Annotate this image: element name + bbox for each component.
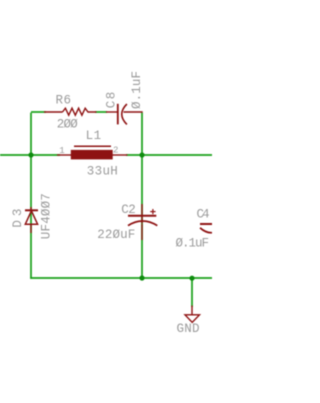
svg-text:22ØuF: 22ØuF: [97, 228, 135, 242]
svg-text:C4: C4: [197, 208, 210, 222]
svg-text:C8: C8: [104, 92, 118, 109]
svg-text:2ØØ: 2ØØ: [57, 117, 78, 131]
svg-text:L1: L1: [86, 129, 102, 143]
svg-text:R6: R6: [56, 94, 72, 108]
svg-text:Ø.1uF: Ø.1uF: [130, 71, 144, 109]
svg-text:2: 2: [113, 146, 118, 156]
svg-text:GND: GND: [177, 322, 200, 336]
svg-text:33uH: 33uH: [87, 165, 118, 179]
svg-text:C2: C2: [121, 203, 136, 217]
svg-text:1: 1: [59, 146, 64, 156]
svg-text:UF4ØØ7: UF4ØØ7: [40, 193, 54, 239]
svg-text:Ø.1uF: Ø.1uF: [176, 236, 210, 250]
